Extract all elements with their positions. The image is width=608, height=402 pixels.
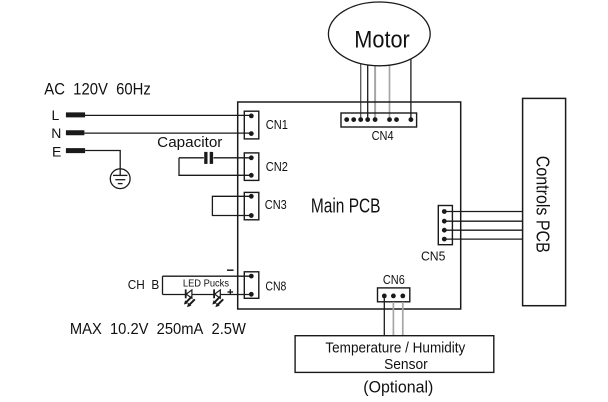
LED D2 bbox=[212, 289, 223, 307]
CN2 pin 1 bbox=[249, 155, 254, 160]
wire N to CN1 pin2 bbox=[84, 132, 251, 134]
polarity minus sign bbox=[227, 269, 234, 271]
CN5 pin 1 bbox=[442, 209, 447, 214]
Main PCB board outline bbox=[238, 102, 461, 309]
CN5 pin 3 bbox=[442, 228, 447, 233]
svg-text:CN5: CN5 bbox=[421, 250, 445, 264]
CN4 pin 1 bbox=[344, 117, 349, 122]
wire CN6-1 to sensor bbox=[383, 296, 385, 336]
CN4 pin 8 bbox=[409, 117, 414, 122]
CN4 pin 5 bbox=[373, 117, 378, 122]
wire CN5-1 to Controls PCB bbox=[444, 211, 522, 213]
svg-text:CN6: CN6 bbox=[383, 273, 405, 287]
svg-text:CH B: CH B bbox=[128, 277, 159, 292]
plug terminal N bbox=[66, 130, 85, 135]
svg-text:CN2: CN2 bbox=[266, 160, 288, 174]
connector CN5 bbox=[438, 206, 452, 245]
connector CN6 bbox=[378, 288, 410, 302]
CN5 pin 4 bbox=[442, 237, 447, 242]
CN4 pin 7 bbox=[394, 117, 399, 122]
CN4 pin 3 bbox=[358, 117, 363, 122]
connector CN4 bbox=[341, 113, 417, 127]
svg-text:E: E bbox=[52, 143, 61, 159]
ground symbol (protective earth) bbox=[110, 169, 130, 189]
svg-text:CN4: CN4 bbox=[372, 129, 394, 143]
CN6 pin 1 bbox=[382, 294, 387, 299]
CN3 pin 2 bbox=[249, 213, 254, 218]
wire CN5-3 to Controls PCB bbox=[444, 229, 522, 231]
capacitor C1 loop top wire bbox=[179, 157, 204, 159]
svg-text:Capacitor: Capacitor bbox=[157, 134, 222, 151]
wire motor lead 4 bbox=[389, 58, 391, 120]
plug terminal L bbox=[66, 112, 85, 117]
connector CN3 bbox=[244, 192, 258, 219]
wire CN6-3 to sensor bbox=[402, 302, 404, 336]
wire CN6-2 to sensor bbox=[392, 302, 394, 336]
connector CN2 bbox=[244, 153, 258, 181]
svg-text:Sensor: Sensor bbox=[384, 357, 428, 373]
connector CN8 bbox=[244, 272, 258, 299]
CN3 pin 1 bbox=[249, 194, 254, 199]
svg-text:AC 120V 60Hz: AC 120V 60Hz bbox=[44, 80, 151, 98]
wire LED loop left bbox=[162, 276, 164, 294]
svg-text:MAX 10.2V 250mA 2.5W: MAX 10.2V 250mA 2.5W bbox=[70, 321, 247, 338]
CN1 pin 1 bbox=[249, 114, 254, 119]
wire motor lead 5 bbox=[410, 50, 412, 120]
svg-text:LED Pucks: LED Pucks bbox=[183, 277, 229, 289]
LED D1 bbox=[184, 289, 195, 307]
svg-text:Motor: Motor bbox=[354, 26, 410, 53]
wire LED loop bottom (to CN8 pin2) bbox=[163, 294, 252, 296]
CN4 pin 4 bbox=[365, 117, 370, 122]
svg-text:N: N bbox=[51, 125, 61, 141]
svg-text:Main PCB: Main PCB bbox=[311, 196, 381, 218]
wire motor lead 3 bbox=[374, 60, 376, 120]
plug terminal E bbox=[66, 148, 85, 153]
CN6 pin 3 bbox=[400, 294, 405, 299]
CN2 pin 2 bbox=[249, 173, 254, 178]
CN5 pin 2 bbox=[442, 219, 447, 224]
wire motor lead 1 bbox=[360, 55, 362, 120]
wire L to CN1 pin1 bbox=[85, 114, 251, 116]
wire LED loop top (CN8 pin1 to left) bbox=[163, 275, 252, 277]
svg-text:(Optional): (Optional) bbox=[363, 378, 433, 397]
jumper loop on CN3 bbox=[212, 196, 251, 215]
svg-text:Temperature / Humidity: Temperature / Humidity bbox=[325, 340, 466, 356]
polarity plus sign bbox=[228, 289, 234, 295]
svg-text:CN1: CN1 bbox=[266, 118, 288, 132]
CN4 pin 2 bbox=[351, 117, 356, 122]
motor M1 bbox=[328, 2, 430, 66]
wire CN5-4 to Controls PCB bbox=[444, 238, 522, 240]
CN8 pin 2 bbox=[249, 292, 254, 297]
wire E to ground bbox=[85, 151, 120, 176]
CN6 pin 2 bbox=[391, 294, 396, 299]
Controls PCB board outline bbox=[523, 98, 566, 305]
connector CN1 bbox=[244, 111, 258, 139]
svg-text:Controls PCB: Controls PCB bbox=[533, 156, 553, 253]
wire CN5-2 to Controls PCB bbox=[444, 220, 522, 222]
CN8 pin 1 bbox=[249, 274, 254, 279]
svg-text:CN8: CN8 bbox=[265, 279, 286, 293]
Temperature/Humidity sensor box bbox=[295, 336, 494, 373]
CN4 pin 6 bbox=[387, 117, 392, 122]
capacitor C1 plates bbox=[204, 152, 207, 164]
svg-text:CN3: CN3 bbox=[265, 198, 287, 212]
wire motor lead 2 bbox=[367, 58, 369, 120]
capacitor loop left and bottom wire bbox=[179, 158, 251, 176]
CN1 pin 2 bbox=[249, 131, 254, 136]
svg-text:L: L bbox=[52, 107, 60, 123]
